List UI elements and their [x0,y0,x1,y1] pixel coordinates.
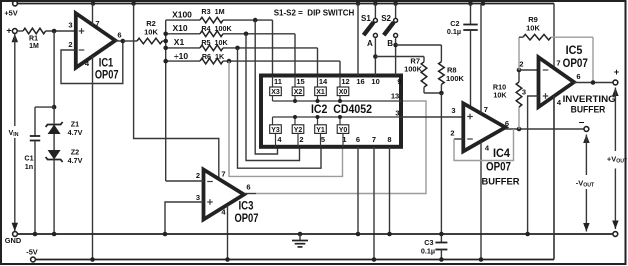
svg-text:R2: R2 [146,19,156,28]
svg-text:C3: C3 [424,238,433,247]
svg-text:0.1µ: 0.1µ [447,27,461,36]
svg-text:7: 7 [484,105,488,114]
svg-text:R6 1K: R6 1K [202,52,225,61]
svg-text:7: 7 [221,170,225,179]
svg-text:IC4: IC4 [493,148,511,160]
svg-text:IC1: IC1 [99,57,114,69]
svg-text:5: 5 [321,135,325,144]
svg-text:OP07: OP07 [235,213,259,225]
svg-text:R1: R1 [29,36,38,43]
svg-text:8: 8 [387,135,391,144]
svg-text:10K: 10K [144,28,158,37]
svg-text:÷10: ÷10 [174,51,188,61]
svg-text:S1-S2 = DIP SWITCH: S1-S2 = DIP SWITCH [274,9,355,18]
svg-text:1: 1 [342,135,346,144]
svg-text:INVERTING: INVERTING [563,94,616,104]
svg-text:100K: 100K [446,74,465,83]
svg-text:3: 3 [196,193,200,202]
svg-text:7: 7 [372,135,376,144]
svg-text:R5 10K: R5 10K [201,38,228,47]
svg-text:BUFFER: BUFFER [571,105,606,115]
svg-text:R4 100K: R4 100K [201,24,232,33]
svg-text:3: 3 [395,109,399,118]
svg-text:IC2 CD4052: IC2 CD4052 [311,104,372,116]
svg-text:OP07: OP07 [486,162,511,174]
svg-text:10: 10 [371,77,379,86]
svg-text:3: 3 [451,106,455,115]
svg-text:BUFFER: BUFFER [482,176,521,186]
svg-text:Y1: Y1 [316,127,325,134]
svg-text:X1: X1 [316,89,325,96]
svg-text:Y3: Y3 [271,127,280,134]
svg-text:B: B [387,39,393,48]
svg-text:6: 6 [117,31,121,40]
svg-text:7: 7 [556,59,560,68]
svg-text:OP07: OP07 [95,69,119,81]
svg-text:12: 12 [341,77,349,86]
svg-text:A: A [367,39,373,48]
svg-text:S2: S2 [381,14,391,23]
svg-text:X0: X0 [339,89,348,96]
svg-text:10K: 10K [493,91,507,100]
svg-text:X1: X1 [174,37,185,47]
svg-text:6: 6 [505,119,509,128]
svg-text:+5V: +5V [4,9,17,18]
svg-text:X2: X2 [294,89,303,96]
svg-text:13: 13 [391,92,399,101]
svg-text:+: + [614,67,619,77]
svg-text:1n: 1n [25,162,33,171]
svg-text:2: 2 [519,60,523,69]
svg-text:14: 14 [319,77,328,86]
svg-text:–: – [579,117,585,128]
svg-text:IC5: IC5 [566,45,583,57]
svg-text:+: + [6,26,11,36]
svg-text:-5V: -5V [26,248,38,257]
svg-text:GND: GND [5,236,22,245]
svg-text:OP07: OP07 [563,58,588,70]
svg-text:2: 2 [299,135,303,144]
svg-text:10K: 10K [526,24,540,33]
svg-text:6: 6 [356,135,360,144]
svg-text:3: 3 [522,88,526,97]
svg-text:9: 9 [397,77,401,86]
svg-text:2: 2 [450,129,454,138]
svg-text:X10: X10 [172,23,187,33]
svg-text:16: 16 [356,77,364,86]
svg-text:4.7V: 4.7V [68,128,83,137]
svg-text:100K: 100K [404,65,423,74]
svg-text:X100: X100 [172,10,192,20]
svg-text:X3: X3 [271,89,280,96]
svg-text:Y0: Y0 [339,127,348,134]
svg-text:Y2: Y2 [294,127,303,134]
svg-text:0.1µ: 0.1µ [421,247,435,256]
svg-text:4.7V: 4.7V [68,156,83,165]
svg-text:3: 3 [68,21,72,30]
svg-text:IC3: IC3 [239,201,254,213]
svg-text:S1: S1 [361,14,371,23]
svg-text:11: 11 [274,77,282,86]
svg-text:6: 6 [246,183,250,192]
svg-text:15: 15 [296,77,304,86]
svg-text:R3 1M: R3 1M [201,7,224,16]
svg-text:1M: 1M [29,43,39,50]
svg-text:2: 2 [196,171,200,180]
svg-text:6: 6 [576,72,580,81]
svg-text:2: 2 [68,40,72,49]
svg-text:7: 7 [95,19,99,28]
